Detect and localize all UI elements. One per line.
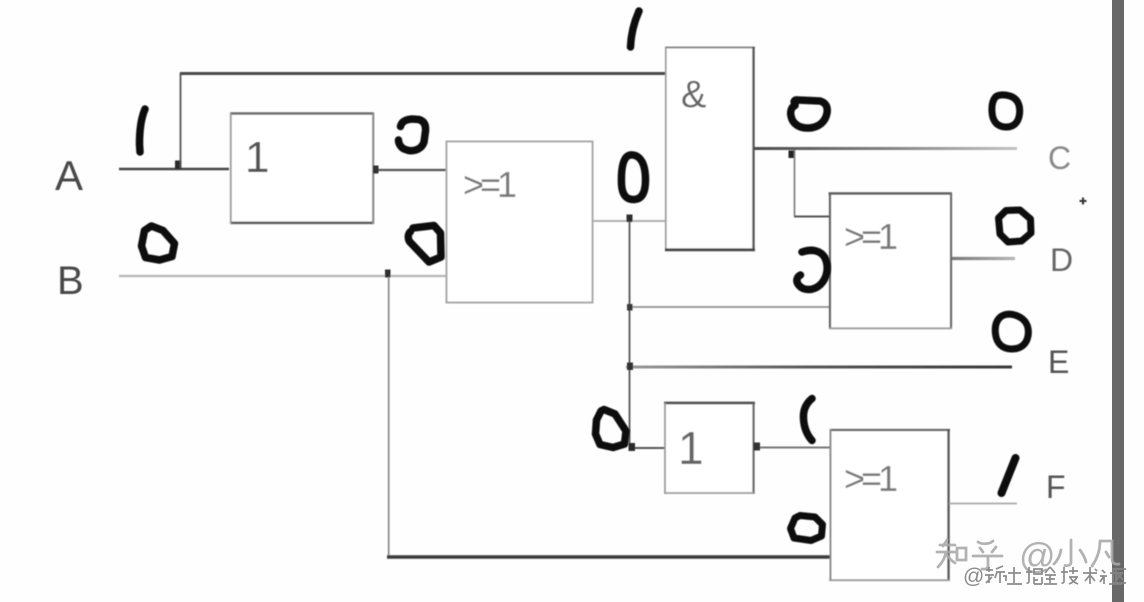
wire: jog into OR2 upper input	[794, 215, 830, 217]
wire: U2 output	[593, 220, 666, 222]
土	[1007, 567, 1022, 584]
wire: U6 output (F)	[949, 503, 1017, 505]
node: junction square below C wire	[789, 151, 796, 159]
掘	[1026, 567, 1042, 584]
node: junction dot at U4 output	[754, 443, 761, 451]
or gate U5 (box ">=1" upper right)	[829, 193, 953, 329]
svg-text:1: 1	[678, 422, 704, 474]
or gate U2 (box ">=1")	[447, 142, 593, 303]
or gate U6 (box ">=1" lower right)	[829, 429, 950, 581]
handwritten mark: "0" left of OR2	[797, 250, 827, 289]
and gate U3 (box "&")	[665, 47, 755, 251]
char 小	[1054, 540, 1086, 566]
wire: top feed to AND gate U3	[180, 72, 667, 75]
buffer gate U1 (box "1")	[230, 113, 374, 224]
char 乎	[973, 541, 1002, 569]
handwritten mark: "0" above D	[999, 210, 1032, 242]
术	[1083, 567, 1097, 584]
handwritten mark: "0" over U1 output	[399, 119, 426, 151]
handwritten mark: "0" below A	[142, 226, 175, 260]
char 知	[937, 540, 966, 567]
watermark line 1: 知乎 @小凡	[937, 540, 1119, 569]
wire: C branch vertical	[794, 150, 796, 216]
handwritten mark: "0" left of AND lower area	[621, 155, 645, 200]
right margin scrollbar	[1112, 0, 1124, 602]
node: junction dot at U4 input	[629, 443, 636, 451]
wire: trunk to OR2 lower input	[629, 306, 830, 308]
handwritten mark: "1" over F output	[1002, 458, 1016, 493]
wire: U4 output to OR3	[754, 446, 831, 448]
svg-text:1: 1	[245, 133, 269, 182]
char 凡	[1092, 541, 1119, 566]
handwritten mark: "1" over U4 output	[803, 399, 812, 441]
技	[1061, 567, 1078, 584]
svg-text:&: &	[681, 74, 706, 116]
handwritten mark: "0" above C	[992, 95, 1020, 127]
wire: E output	[626, 366, 1012, 369]
handwritten mark: "0" above E	[995, 314, 1028, 349]
稀	[985, 566, 1006, 583]
watermark line 2: @稀土掘金技术社区	[963, 565, 1126, 588]
handwritten mark: "0" left of U4	[596, 410, 627, 448]
node: junction tick on A wire	[175, 161, 182, 170]
wire: trunk to U4 input	[629, 447, 665, 449]
svg-text:@: @	[963, 565, 984, 588]
wire: U1 output to OR1	[374, 169, 447, 171]
社	[1100, 569, 1122, 584]
handwritten mark: "1" above AND gate	[631, 11, 640, 47]
金	[1044, 567, 1057, 584]
wire: trunk vertical	[629, 221, 631, 448]
svg-text:>=1: >=1	[844, 458, 897, 499]
node: junction tick on B wire	[385, 270, 391, 278]
handwritten mark: "0" over AND output	[791, 100, 828, 128]
handwritten mark: "1" over A input	[140, 109, 146, 152]
buffer gate U4 (box "1" lower)	[664, 402, 755, 494]
node: junction dot at U1 output	[373, 166, 379, 174]
wire: B feedback vertical down	[388, 277, 390, 556]
svg-text:F: F	[1046, 469, 1066, 505]
wire: U5 output (D)	[952, 257, 1015, 260]
wire: U3 output (C)	[754, 147, 1017, 150]
node: tick on trunk at E branch	[627, 363, 633, 371]
handwritten mark: "0" over B at OR1 input	[408, 226, 441, 263]
node: junction tick at trunk top	[627, 215, 633, 223]
wire: bottom feedback to OR3	[387, 555, 830, 559]
svg-text:B: B	[57, 259, 84, 303]
wire: input B horizontal	[119, 275, 447, 277]
区	[1113, 569, 1126, 583]
wire: input A horizontal	[119, 168, 229, 171]
node: tick on trunk at OR2 branch	[627, 304, 633, 311]
svg-text:D: D	[1050, 242, 1073, 278]
svg-text:A: A	[55, 152, 83, 199]
svg-text:E: E	[1048, 344, 1069, 380]
speck near right margin	[1080, 198, 1087, 205]
wire: A branch vertical up	[180, 73, 182, 168]
svg-text:C: C	[1048, 140, 1071, 176]
svg-text:>=1: >=1	[844, 216, 897, 257]
svg-text:>=1: >=1	[463, 164, 516, 205]
handwritten mark: "0" below U4 near OR3	[791, 516, 823, 541]
